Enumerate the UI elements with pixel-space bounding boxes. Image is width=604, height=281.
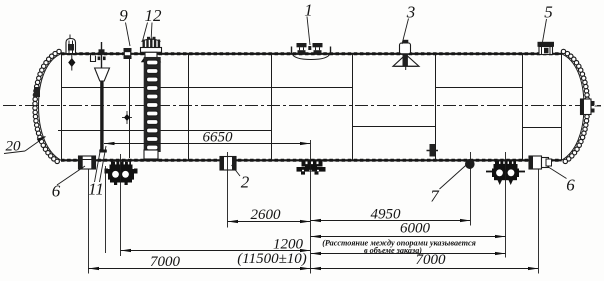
svg-text:6: 6 — [566, 176, 575, 195]
svg-text:20: 20 — [6, 139, 22, 155]
svg-text:6650: 6650 — [203, 130, 234, 146]
svg-text:2600: 2600 — [251, 207, 282, 223]
svg-text:1: 1 — [304, 1, 313, 20]
svg-text:4950: 4950 — [371, 207, 402, 223]
svg-text:6000: 6000 — [400, 221, 431, 237]
svg-text:6: 6 — [52, 182, 61, 201]
svg-text:12: 12 — [145, 6, 163, 25]
svg-text:11: 11 — [88, 180, 104, 199]
svg-text:в объеме заказа): в объеме заказа) — [364, 246, 422, 255]
svg-text:(11500±10): (11500±10) — [237, 251, 307, 267]
svg-text:2: 2 — [241, 173, 250, 192]
svg-text:7000: 7000 — [150, 254, 181, 270]
svg-text:3: 3 — [406, 3, 416, 22]
svg-text:5: 5 — [544, 3, 553, 22]
svg-text:9: 9 — [119, 6, 128, 25]
